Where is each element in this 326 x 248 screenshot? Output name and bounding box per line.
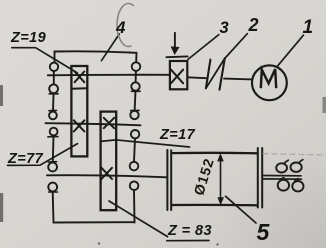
bearing circles right column shaft I <box>132 62 141 71</box>
leader for label 3 <box>188 35 219 60</box>
leader for label 1 <box>277 35 303 66</box>
motor letter M <box>261 69 276 88</box>
label Z=19 <box>11 30 46 46</box>
drum dimension line <box>220 158 222 202</box>
bearing circles left column shaft II <box>49 109 57 111</box>
leader for label 4 <box>101 34 119 61</box>
bearing circles left column shaft III <box>48 161 56 163</box>
coupling cross <box>171 70 183 84</box>
paper smudge marks <box>0 85 3 106</box>
brake arrow <box>174 33 176 48</box>
label 4 <box>116 18 125 38</box>
label Z=83 <box>168 223 212 239</box>
gearbox housing top rail <box>55 51 137 62</box>
drum right flange <box>258 148 262 208</box>
shaft II <box>46 123 141 125</box>
leader and underline for Z=19 <box>12 48 78 73</box>
drum bearing circles right <box>276 163 287 172</box>
label 1 <box>303 17 314 39</box>
faint dashed line right of drum <box>263 154 326 155</box>
right bearing column stem segments <box>134 71 136 223</box>
leader and underline for Z=77 <box>8 144 78 166</box>
gearbox bottom frame <box>54 221 135 223</box>
label 5 <box>257 219 270 246</box>
label 3 <box>220 19 229 38</box>
bearing circles right column shaft II <box>131 109 139 111</box>
pencil arc near label 4 <box>117 3 133 46</box>
shaft I <box>48 74 170 77</box>
coupling rect <box>170 61 187 89</box>
belt drive bar 1 <box>206 60 211 89</box>
gear block rect II (Z=17 over Z=83) <box>101 112 117 211</box>
bearing circles right column shaft III <box>130 162 139 171</box>
belt drive bar 2 <box>220 58 225 89</box>
belt line <box>207 59 225 87</box>
shaft I belt-to-motor segment <box>224 78 252 81</box>
gear Z=17 cross <box>104 118 114 128</box>
label Z=17 <box>160 127 195 143</box>
label Z=77 <box>8 151 43 167</box>
leader for label 5 <box>226 196 256 223</box>
shaft III <box>47 175 167 177</box>
gear Z=77 cross <box>74 120 85 131</box>
gear block rect I (Z=19 over Z=77) <box>71 66 87 156</box>
brake cap line <box>166 55 187 58</box>
motor circle U1 <box>252 65 287 100</box>
drum body <box>172 153 257 206</box>
bearing circles left column shaft I <box>50 63 58 71</box>
gear Z=19 cross <box>75 72 85 83</box>
label 2 <box>249 15 259 36</box>
drum left flange <box>167 150 171 210</box>
leader and underline for Z=17 <box>101 140 190 147</box>
leader and underline for Z=83 <box>109 201 209 241</box>
gear Z=83 cross <box>102 168 113 179</box>
leader for label 2 <box>225 34 248 59</box>
left bearing column stem segments <box>53 71 54 223</box>
shaft I coupling-to-belt segment <box>188 76 207 79</box>
drum output shaft stub <box>263 176 302 180</box>
